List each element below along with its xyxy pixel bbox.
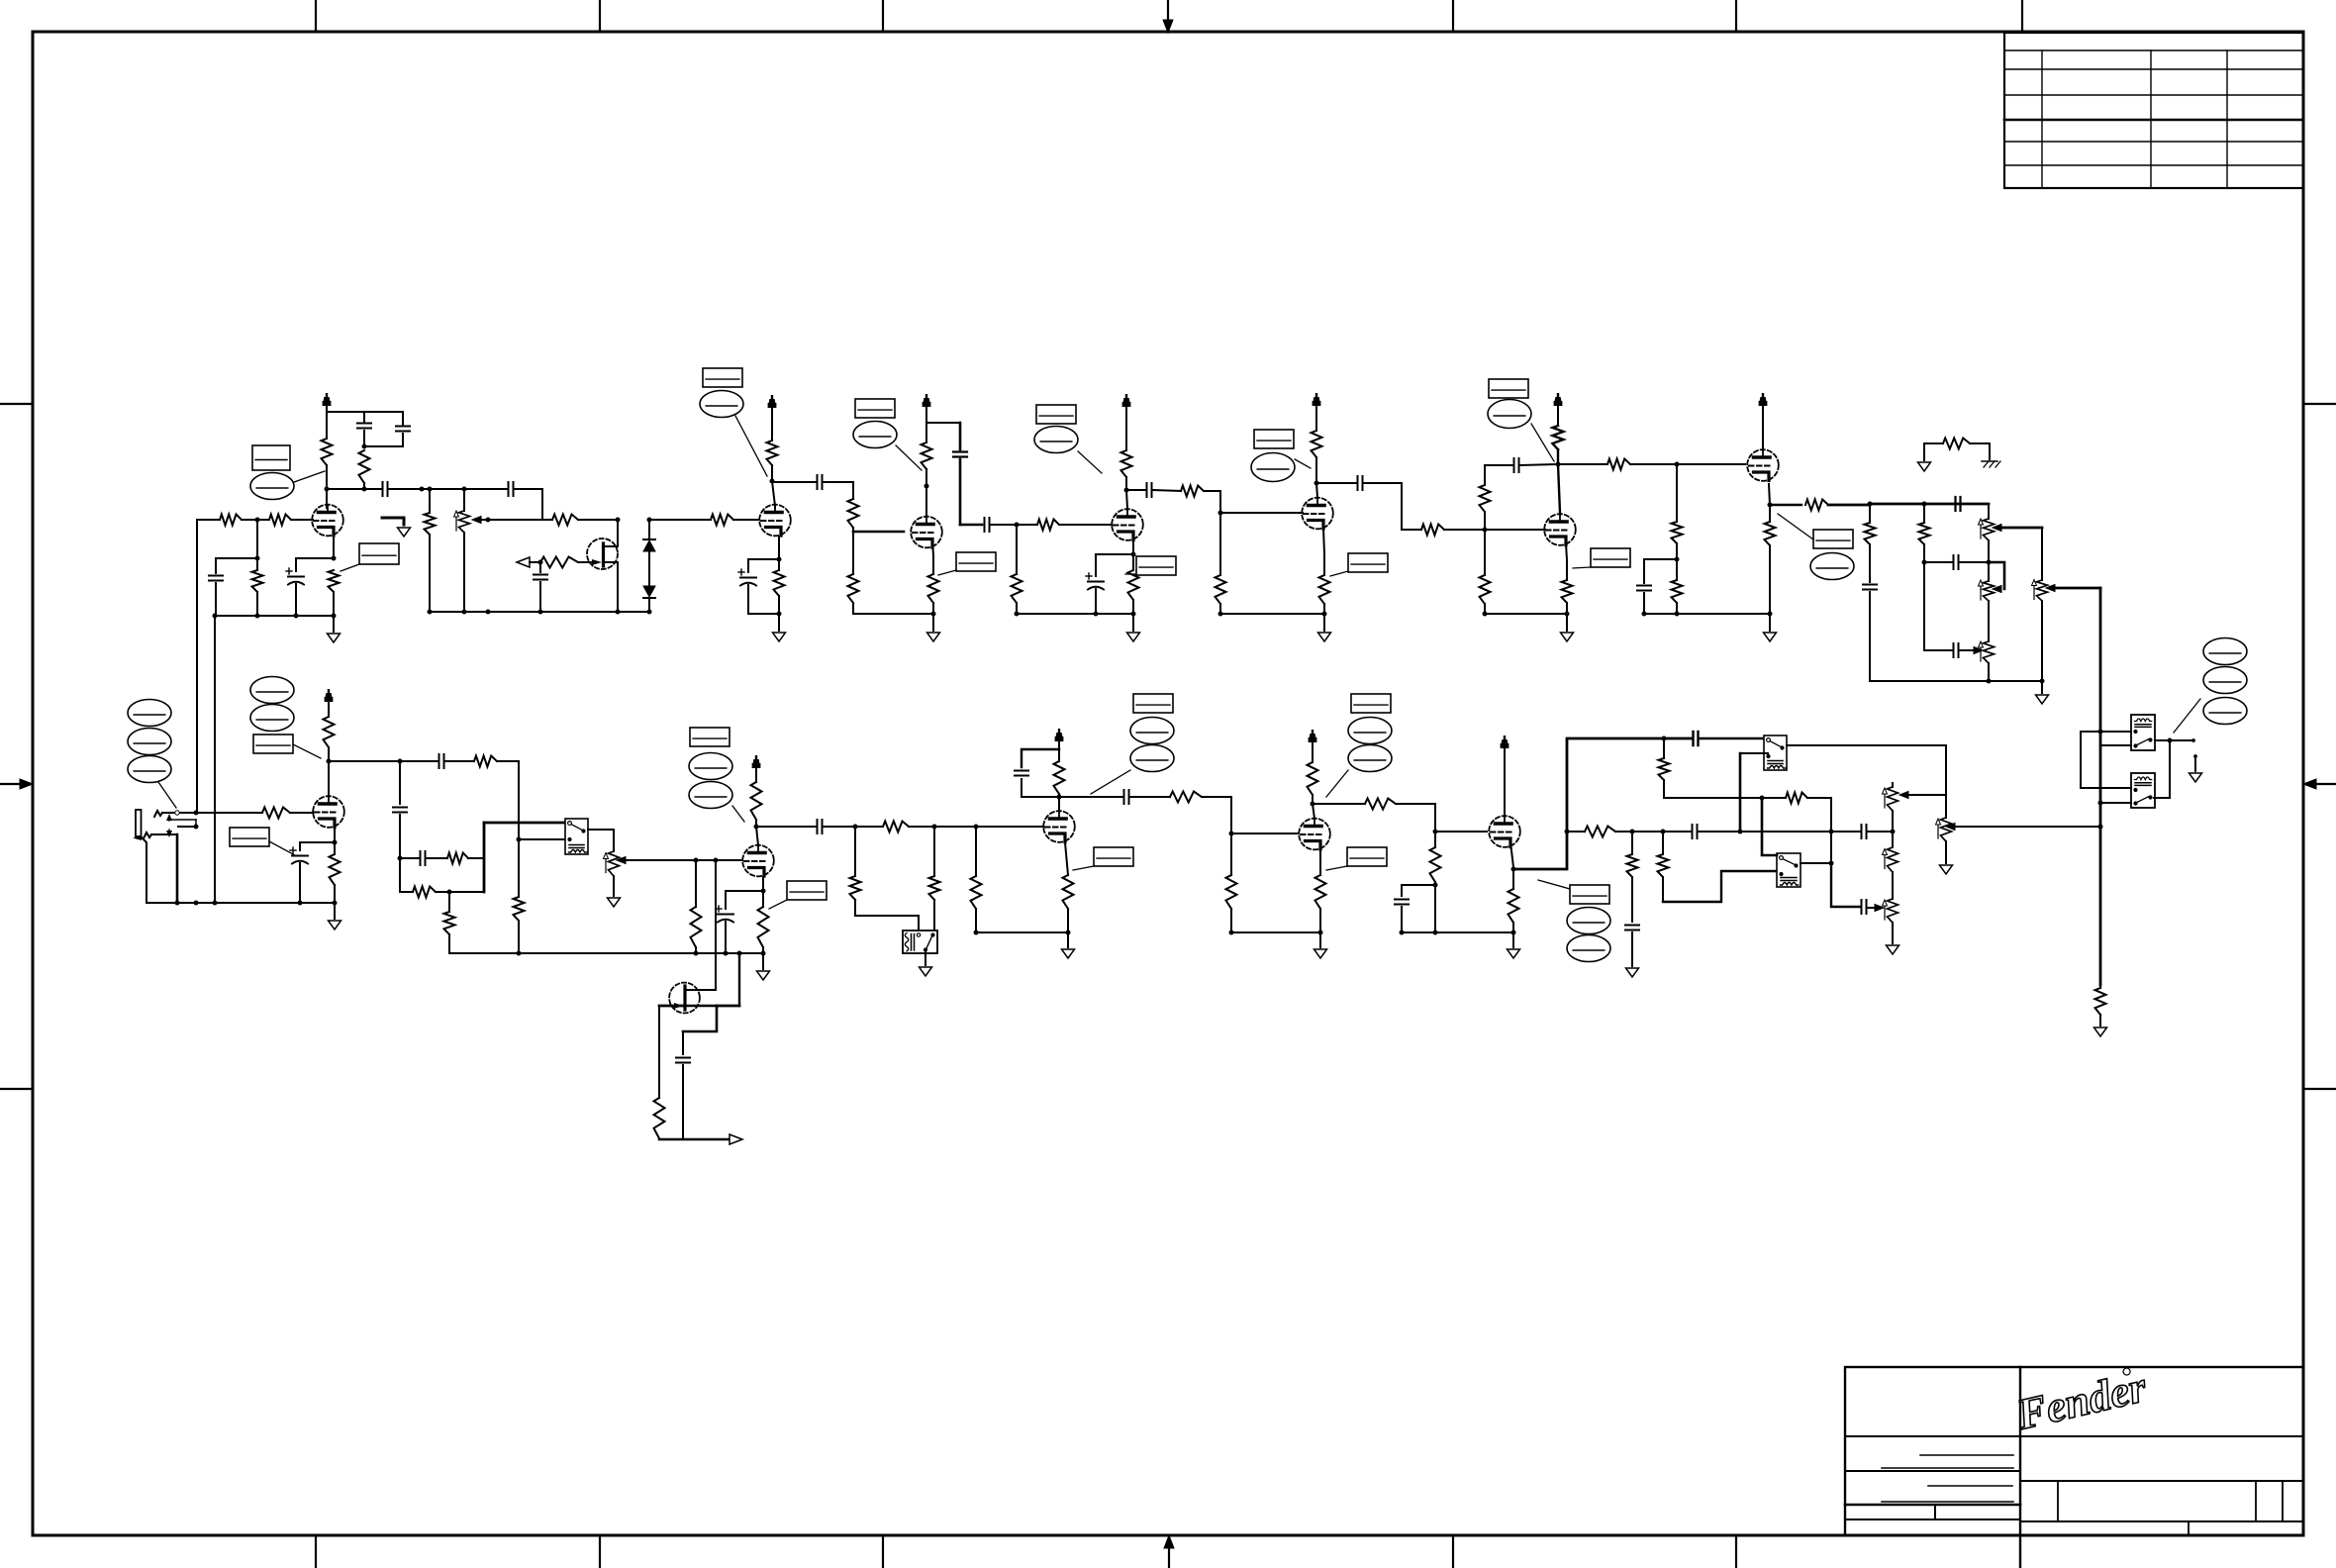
resistor R8 bbox=[552, 515, 578, 526]
leader R17 bbox=[938, 570, 956, 575]
wire S4 out bbox=[1801, 862, 1831, 864]
B+ arrow stage12 bbox=[1504, 745, 1506, 816]
capacitor C31 bbox=[1692, 825, 1694, 838]
capacitor C23 bbox=[399, 761, 401, 804]
svg-text:Fender: Fender bbox=[2011, 1362, 2151, 1439]
callout ellipse V4 bbox=[1034, 427, 1078, 453]
triode V5 bbox=[1302, 498, 1333, 530]
resistor R60 cathode V11 bbox=[1315, 875, 1326, 909]
resistor R35 bbox=[1769, 505, 1771, 522]
capacitor C22 coupling V8 bbox=[400, 760, 438, 762]
capacitor C12 coupling V4 bbox=[1146, 483, 1148, 497]
resistor R21 grid V5 bbox=[1181, 486, 1204, 497]
resistor R25 bbox=[1421, 525, 1444, 536]
arrow into VR10 bbox=[1868, 907, 1875, 909]
resistor R65 bbox=[1786, 793, 1807, 804]
callout box R26 bbox=[1348, 553, 1388, 572]
wire C8 to divider bbox=[824, 481, 853, 483]
right tick marks bbox=[2303, 403, 2336, 405]
ground rail stage2 bbox=[748, 613, 779, 615]
callout V10 bbox=[1133, 694, 1173, 713]
wire to bus bottom bbox=[449, 891, 484, 893]
resistor R16 plate load V3 bbox=[925, 423, 927, 442]
wire S4 to C34 bbox=[1831, 863, 1860, 907]
resistor R9 gate bbox=[578, 519, 587, 521]
FET Q2 oscillator bbox=[669, 983, 700, 1014]
wiper VR5 bbox=[2046, 585, 2055, 592]
capacitor C25 cathode bypass V9 bbox=[718, 914, 733, 916]
resistor R55 plate load V10 bbox=[1054, 761, 1065, 794]
wire plate out V4 bbox=[1126, 489, 1145, 491]
leader to R6 bbox=[341, 564, 359, 571]
leader input bbox=[158, 782, 176, 808]
leader V8 bbox=[293, 744, 321, 758]
B+ arrow stage1 bbox=[326, 403, 328, 412]
wire jack vertical join bbox=[194, 811, 199, 816]
triode V12 bbox=[1489, 816, 1520, 847]
capacitor C27 bbox=[1015, 770, 1028, 772]
resistor R26 cathode V5 bbox=[1323, 554, 1325, 575]
capacitor C34 bbox=[1861, 900, 1863, 914]
callout V11 bbox=[1351, 694, 1391, 713]
resistor R59 plate load V11 bbox=[1308, 762, 1318, 795]
ground rail V12 bbox=[1402, 931, 1513, 933]
resistor R13 bbox=[852, 482, 854, 499]
resistor R27 bbox=[1484, 512, 1486, 530]
channel pot VR6 bbox=[609, 851, 620, 876]
resistor R12 plate load V2A bbox=[771, 412, 773, 441]
capacitor C29 bbox=[1402, 885, 1435, 896]
resistor R1 plate load V1A bbox=[322, 439, 333, 465]
wiper VR10 bbox=[1946, 824, 1955, 831]
capacitor C19 bbox=[1924, 561, 1952, 563]
volume pot VR5 bbox=[2041, 528, 2043, 580]
ground V12 bbox=[1511, 931, 1516, 935]
wire C10 out bbox=[960, 524, 982, 527]
left center arrow bbox=[0, 783, 22, 785]
wire junction C1-C2 bbox=[364, 445, 403, 447]
reverb switch box upper bbox=[2131, 715, 2155, 750]
wire thick channel bus bbox=[483, 823, 486, 892]
ground stage6 bbox=[1565, 612, 1570, 617]
ground rail V9 bbox=[449, 952, 763, 954]
resistor R50 cathode V9 bbox=[758, 907, 769, 947]
callout value box stage1 bbox=[252, 445, 290, 470]
wire reverb send bus bbox=[2099, 588, 2102, 985]
capacitor C8 coupling V2A bbox=[817, 475, 819, 489]
wire follower bus bbox=[1513, 738, 1692, 869]
triode V7 bbox=[1747, 449, 1779, 481]
left tick marks bbox=[0, 403, 33, 405]
ground V8 bbox=[333, 901, 338, 906]
ground rail stage1 bbox=[215, 615, 334, 617]
capacitor C32 bbox=[1861, 825, 1863, 838]
resistor R43 bright bbox=[445, 760, 474, 762]
resistor R53 mute lower bbox=[933, 827, 935, 876]
wire switch feed lower bbox=[519, 838, 565, 840]
wire cathode V12 bbox=[1510, 842, 1513, 867]
B+ arrow stage11 bbox=[1312, 739, 1314, 762]
ground hatched R36 bbox=[1982, 460, 1997, 462]
revision table top right bbox=[2004, 33, 2303, 188]
ground S2 bbox=[925, 951, 926, 965]
ground rail FET block bbox=[430, 611, 649, 613]
resistor R52 mute upper bbox=[854, 827, 856, 876]
wire cathode V7 bbox=[1769, 484, 1770, 505]
wire cathode V11 bbox=[1319, 849, 1321, 875]
resistor R10 bbox=[540, 557, 578, 568]
resistor R33 bbox=[1676, 559, 1678, 580]
resistor R19 bbox=[1016, 525, 1018, 574]
open arrow output bbox=[730, 1134, 742, 1144]
jack shorting arrow 2 bbox=[166, 831, 172, 837]
output ground stub bbox=[2193, 754, 2197, 758]
capacitor C20 bbox=[1924, 649, 1952, 651]
capacitor C5 cathode bypass bbox=[288, 576, 304, 578]
B+ arrow stage3 bbox=[925, 404, 927, 423]
B+ arrow stage9 bbox=[755, 765, 757, 782]
leader V3 bbox=[896, 445, 922, 470]
ground V11 bbox=[1318, 931, 1323, 935]
wire corner volume net bbox=[497, 761, 519, 839]
wire plate out V8 bbox=[329, 760, 400, 762]
ground R39 bbox=[2094, 1028, 2107, 1036]
wiper arrow VR1 bbox=[472, 517, 481, 524]
node plate V5 bbox=[1314, 481, 1319, 486]
resistor R47 bbox=[518, 839, 520, 897]
wire VR2 to C19 node bbox=[1988, 540, 1990, 562]
wire cathode V5 bbox=[1323, 529, 1324, 554]
wire main to FET bbox=[488, 519, 552, 521]
bass pot VR3 bbox=[1988, 562, 1990, 581]
resistor R40 grid V8 bbox=[262, 808, 290, 819]
wire C26 node bbox=[824, 826, 855, 828]
potentiometer VR1 bbox=[463, 489, 465, 511]
leader V11 bbox=[1326, 770, 1348, 797]
wire Q2 drain feed bbox=[738, 953, 740, 1006]
wire plate out V5 bbox=[1316, 482, 1356, 484]
B+ arrow stage2 bbox=[771, 405, 773, 412]
triode V2A bbox=[759, 505, 791, 537]
leader V7 bbox=[1778, 514, 1813, 539]
capacitor C15 bbox=[1513, 458, 1515, 472]
jack shorting arrow 1 bbox=[166, 814, 172, 821]
capacitor C1 bbox=[363, 412, 365, 422]
leader V9 bbox=[732, 806, 744, 822]
leader reverb bbox=[2174, 699, 2200, 733]
ground stage3 bbox=[932, 614, 934, 631]
B+ arrow stage7 bbox=[1762, 403, 1764, 450]
resistor R49 plate load V9 bbox=[751, 782, 762, 820]
capacitor C16 bbox=[1637, 585, 1651, 587]
resistor R34 follower bbox=[1770, 504, 1801, 506]
capacitor C3 coupling V1A bbox=[382, 482, 384, 496]
callout V8 bbox=[250, 677, 294, 704]
wire dry signal bbox=[1567, 831, 1585, 833]
ground switch bbox=[398, 528, 411, 537]
FET Q1 bbox=[587, 539, 618, 569]
capacitor C14 coupling V5 bbox=[1357, 476, 1359, 490]
capacitor C18 bbox=[1863, 584, 1877, 586]
wire to corner bbox=[1364, 483, 1421, 530]
wire to lower box bbox=[2081, 787, 2131, 789]
resistor R54 bbox=[975, 827, 977, 876]
arrow into mid pot bbox=[1960, 649, 1974, 651]
wire B+ branch bbox=[926, 422, 960, 424]
signature lines bbox=[1920, 1454, 2013, 1456]
wire mute corner bbox=[855, 900, 919, 931]
capacitor C13 cathode bypass V4 bbox=[1088, 581, 1104, 583]
callout ellipses input bbox=[128, 700, 171, 727]
wire cathode V1A bbox=[333, 537, 335, 558]
wire R68 to S4 bbox=[1663, 871, 1777, 902]
resistor R69 bbox=[658, 1006, 660, 1098]
resistor R63 cathode V12 bbox=[1512, 869, 1514, 889]
node A wire bbox=[422, 488, 430, 490]
capacitor C11 coupling bbox=[984, 518, 986, 532]
capacitor C10 bbox=[959, 423, 962, 449]
ground stage5 bbox=[1322, 612, 1327, 617]
B+ arrow stage5 bbox=[1315, 403, 1317, 431]
B+ arrow stage8 bbox=[328, 699, 330, 717]
relay switch S4 bbox=[1777, 853, 1801, 887]
ground VR6 bbox=[613, 876, 615, 896]
resistor R17 cathode V3 bbox=[932, 556, 934, 574]
node plate V11 bbox=[1311, 802, 1315, 807]
ground VR9 bbox=[1887, 945, 1899, 954]
leader R50 bbox=[769, 900, 787, 909]
node plate V10 bbox=[1057, 795, 1062, 800]
B+ arrow stage4 bbox=[1125, 404, 1127, 450]
callout ellipses reverb bbox=[2203, 638, 2247, 665]
capacitor C2 bbox=[402, 412, 404, 425]
gate wire Q1 bbox=[578, 561, 592, 563]
Fender logo bbox=[2011, 1362, 2151, 1439]
resistor R31 cathode V6 bbox=[1566, 560, 1568, 580]
callout ellipse V7 bbox=[1810, 553, 1854, 580]
leader R23 bbox=[1125, 573, 1136, 575]
capacitor C28 coupling V10 bbox=[1123, 790, 1125, 804]
callout box R60 bbox=[1347, 847, 1387, 866]
bottom center arrow bbox=[1168, 1546, 1170, 1568]
leader R56 bbox=[1073, 866, 1094, 870]
capacitor C26 coupling V9 bbox=[817, 820, 819, 833]
callout V12 bbox=[1570, 885, 1609, 904]
ground stage1 bbox=[332, 614, 337, 619]
leader to R1 bbox=[294, 471, 325, 482]
resistor R22 bbox=[1219, 513, 1221, 575]
node plate V9 bbox=[754, 825, 759, 830]
wire cathode V8 bbox=[334, 828, 336, 842]
leader V10 bbox=[1091, 770, 1130, 794]
node divider V7 bbox=[1675, 557, 1680, 562]
ground rail tone stack bbox=[1870, 680, 2042, 682]
triode V10 bbox=[1043, 811, 1075, 842]
ground tone stack bbox=[2041, 681, 2043, 693]
resistor R48 bbox=[695, 860, 697, 907]
capacitor C17 tone bbox=[1954, 497, 1956, 511]
bass pot VR8 bbox=[1892, 832, 1894, 847]
capacitor C21 cathode bypass V8 bbox=[292, 855, 308, 857]
wire to grid R V5 bbox=[1153, 490, 1181, 491]
callout box R56 bbox=[1094, 847, 1133, 866]
wire thick tap lower bbox=[2098, 801, 2103, 806]
callout box R6 bbox=[359, 543, 399, 564]
wire corner R65 bbox=[1830, 798, 1832, 832]
node plate V1A bbox=[325, 487, 330, 492]
resistor R45 bbox=[413, 887, 436, 898]
capacitor C35 bbox=[682, 1031, 684, 1054]
resistor R3 grid stopper V1A bbox=[197, 519, 220, 521]
mid pot VR4 bbox=[1988, 601, 1990, 641]
wire slope cap bbox=[1923, 562, 1925, 650]
node plate V8 bbox=[327, 759, 332, 764]
callout box R50 bbox=[787, 881, 827, 900]
wire grid junction bbox=[242, 519, 269, 521]
wire plate out V9 bbox=[756, 826, 816, 828]
wire R64 out bbox=[1664, 797, 1762, 799]
jack wire 2 down bbox=[165, 833, 177, 835]
resistor R11 grid V2A bbox=[711, 515, 733, 526]
wire cathode V6 bbox=[1566, 543, 1567, 560]
node plate V3 bbox=[925, 484, 929, 489]
ground V9 bbox=[761, 951, 766, 956]
wire cathode V2A bbox=[778, 537, 780, 559]
wire Q2 drain bbox=[686, 989, 716, 991]
wire thick tap upper bbox=[2100, 744, 2131, 746]
wire Q2 source bbox=[683, 1006, 717, 1031]
wire corner V12 grid bbox=[1435, 804, 1487, 832]
resistor R64 bbox=[1663, 738, 1665, 758]
wire corner grid V5 bbox=[1220, 491, 1303, 513]
wire B+ node stage1 bbox=[327, 411, 403, 413]
leader V6 bbox=[1531, 424, 1554, 461]
ground rail V8 bbox=[146, 902, 335, 904]
callout V9 bbox=[690, 728, 730, 746]
resistor R5 bbox=[256, 558, 258, 570]
leader R42 bbox=[269, 841, 295, 855]
diode D1 bbox=[648, 520, 650, 539]
wire C11 to node bbox=[991, 524, 1017, 526]
ground stage7 bbox=[1768, 612, 1773, 617]
title block center divider bbox=[2019, 1367, 2021, 1568]
wire plate out V11 bbox=[1313, 803, 1365, 805]
B+ arrow stage10 bbox=[1058, 738, 1060, 749]
callout box R17 bbox=[956, 552, 996, 571]
capacitor C6 bbox=[508, 482, 510, 496]
leader R60 bbox=[1326, 866, 1347, 870]
wire plate node out bbox=[1558, 463, 1607, 465]
resistor R7 bbox=[429, 489, 431, 513]
wire corner V11 grid bbox=[1231, 797, 1298, 833]
resistor R66 bbox=[1585, 827, 1615, 837]
wire cathode V4 bbox=[1132, 540, 1134, 554]
resistor R57 bbox=[1130, 796, 1170, 798]
tremolo output wire bbox=[659, 1138, 730, 1141]
callout box V7 bbox=[1813, 530, 1853, 548]
callout ellipse V2A bbox=[700, 391, 743, 418]
ground rail V11 bbox=[1231, 931, 1320, 933]
ground left R36 bbox=[1918, 462, 1931, 471]
resistor R67 bbox=[1631, 832, 1633, 854]
resistor R18 grid V4 bbox=[1037, 520, 1059, 531]
resistor R15 cathode V2A bbox=[774, 570, 785, 596]
volume pot VR10 bbox=[1945, 795, 1947, 818]
resistor R61 bbox=[1365, 799, 1396, 810]
wire grid V3 bbox=[852, 528, 854, 532]
ground rail stage6 bbox=[1485, 613, 1567, 615]
ground R67 bbox=[1626, 968, 1639, 977]
resistor R2 snubber bbox=[359, 450, 370, 483]
triode V1A bbox=[312, 505, 343, 537]
mid pot VR9 bbox=[1888, 899, 1898, 923]
resistor R39 bbox=[2095, 988, 2106, 1015]
wire S1 out bbox=[588, 830, 614, 851]
reverb switch box lower bbox=[2131, 773, 2155, 808]
triode V8 bbox=[313, 796, 344, 828]
wire grid V7 bbox=[1677, 463, 1745, 465]
resistor R58 bbox=[1230, 833, 1232, 875]
resistor R41 plate load V8 bbox=[324, 717, 335, 747]
callout box V6 bbox=[1489, 379, 1528, 398]
resistor R4 grid stopper V1A bbox=[269, 515, 291, 526]
triode V9 bbox=[742, 845, 774, 877]
callout box R31 bbox=[1591, 548, 1630, 567]
title block bbox=[1845, 1367, 2303, 1535]
wire corner down bbox=[400, 858, 413, 892]
wiper VR2 bbox=[1993, 525, 2001, 532]
wire cathode V9 bbox=[762, 877, 764, 891]
grounded switch contact bbox=[382, 518, 404, 525]
resistor R36 between grounds bbox=[1924, 443, 1943, 460]
wire corner to C15 bbox=[1485, 464, 1512, 466]
resistor R28 bbox=[1484, 530, 1486, 575]
wire bus to switch bbox=[484, 822, 565, 825]
wire cathode V10 bbox=[1065, 842, 1068, 875]
top center arrow bbox=[1167, 0, 1169, 22]
wire plate out V2A bbox=[772, 481, 816, 483]
wire S3 bypass tap bbox=[1740, 752, 1768, 754]
callout tube label V1A bbox=[250, 473, 294, 500]
relay switch S2 bbox=[903, 931, 937, 953]
wire gate bias arrow bbox=[517, 557, 530, 567]
wire cathode V3 bbox=[932, 539, 933, 556]
wiper VR6 bbox=[617, 857, 626, 864]
right center arrow bbox=[2314, 783, 2336, 785]
resistor R38 bbox=[1923, 504, 1925, 523]
jack tip contact 2 bbox=[144, 833, 151, 838]
leader V12 bbox=[1538, 880, 1570, 889]
top tick marks bbox=[315, 0, 317, 32]
callout box R42 bbox=[230, 828, 269, 846]
ground V10 bbox=[1066, 931, 1071, 935]
wire C15 to plate node V6 bbox=[1520, 464, 1556, 465]
wire long vertical 2 to jack area bbox=[214, 616, 216, 903]
wire lower output bbox=[2154, 797, 2170, 799]
callout ellipse V5 bbox=[1251, 453, 1295, 482]
bottom tick marks bbox=[315, 1535, 317, 1568]
triode V3 bbox=[911, 517, 942, 548]
leader V4 bbox=[1078, 451, 1102, 473]
resistor R37 bbox=[1869, 504, 1871, 523]
wire plate out V10 bbox=[1059, 796, 1122, 798]
resistor R56 cathode V10 bbox=[1063, 875, 1074, 909]
ground rail stage5 bbox=[1220, 613, 1324, 615]
ground VR10 bbox=[1940, 865, 1953, 874]
capacitor C30 send bbox=[1692, 732, 1694, 745]
triode V4 bbox=[1112, 509, 1143, 540]
callout box R23 bbox=[1136, 556, 1176, 575]
